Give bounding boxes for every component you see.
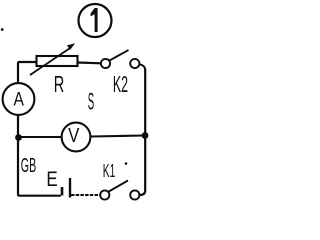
wire: rheostat to switch K2 — [78, 61, 101, 64]
digit 1 inside figure-number circle — [91, 8, 98, 32]
wire: right rail to K1 (corner) — [140, 191, 146, 196]
rheostat arrowhead — [67, 43, 75, 50]
voltmeter V — [62, 123, 91, 152]
resistor (rheostat) R body — [37, 56, 78, 66]
battery short plate (negative) — [61, 187, 64, 196]
rheostat arrow shaft — [30, 48, 71, 75]
wire: K2 to right rail (corner) — [139, 64, 145, 70]
ammeter A — [3, 83, 35, 115]
svg-text:K2: K2 — [113, 71, 128, 97]
svg-text:E: E — [46, 167, 57, 191]
switch K2 blade (open) — [110, 50, 129, 61]
svg-text:GB: GB — [21, 154, 36, 177]
figure-number circle (1) — [79, 4, 112, 37]
svg-text:V: V — [68, 123, 80, 146]
wire: battery to switch K1 (scan-dashed) — [71, 194, 100, 196]
switch K2 right contact — [130, 59, 139, 68]
battery long plate (positive) — [69, 178, 71, 198]
stray speck at left margin — [1, 28, 4, 31]
svg-text:A: A — [13, 88, 24, 110]
switch K1 blade (open) — [109, 181, 128, 192]
svg-text:R: R — [54, 72, 65, 98]
svg-text:S: S — [88, 87, 94, 115]
junction node on right rail — [142, 132, 149, 139]
wire: ammeter top to rheostat (corner) — [18, 62, 37, 83]
wire: voltmeter to right rail — [91, 136, 143, 137]
switch K1 right contact — [130, 190, 139, 199]
junction node on left rail — [15, 134, 22, 141]
wire: left rail vertical with bottom corner — [18, 116, 61, 196]
wire: right rail vertical — [144, 69, 146, 191]
switch K1 left contact — [100, 190, 109, 199]
stray speck near K1 — [125, 162, 128, 165]
switch K2 left contact — [101, 59, 110, 68]
wire: junction to voltmeter — [19, 136, 62, 138]
svg-text:K1: K1 — [103, 161, 115, 182]
